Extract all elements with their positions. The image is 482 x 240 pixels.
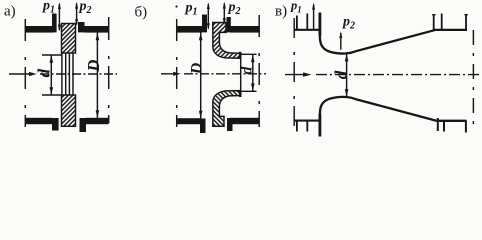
svg-text:p2: p2 [79, 0, 92, 16]
dimension D arrow [96, 32, 98, 118]
centerline [316, 74, 482, 76]
label D [84, 59, 103, 72]
dimension D arrow [200, 32, 202, 118]
right break line [108, 17, 110, 123]
dimension d arrow [50, 55, 52, 95]
right break line [258, 15, 260, 127]
label d [34, 69, 53, 78]
flange pair left [297, 14, 307, 132]
svg-text:б): б) [135, 5, 148, 21]
flow arrow [9, 73, 30, 75]
flange serif ticks [432, 14, 468, 16]
label p1 [42, 0, 55, 16]
flow arrow [161, 73, 174, 75]
right break line [472, 30, 474, 126]
label d [332, 70, 351, 79]
venturi inlet face [318, 13, 321, 137]
svg-text:p2: p2 [342, 15, 355, 32]
flange block top-right [78, 22, 85, 32]
pressure tap arrow p2 [223, 4, 225, 24]
nozzle upper body [213, 23, 240, 59]
pipe wall bottom-left bar [26, 118, 52, 124]
centerline [184, 73, 266, 75]
pipe wall top-right bar [231, 26, 260, 33]
pipe wall line bottom-left [294, 120, 319, 122]
pressure tap arrow p1 [207, 4, 209, 29]
pressure tap arrow p2 [76, 4, 78, 25]
svg-text:а): а) [4, 4, 16, 20]
svg-text:p1: p1 [42, 0, 55, 16]
flange block top-right [227, 17, 231, 32]
label p1 [185, 1, 198, 18]
venturi upper profile [320, 30, 467, 54]
label p1 [290, 0, 302, 14]
flange lines right top [434, 14, 466, 30]
label D [189, 62, 206, 75]
pipe wall bottom-right bar [230, 118, 259, 124]
flange block top-left [202, 15, 207, 33]
left break line [293, 18, 295, 128]
dimension d extension lines [42, 55, 62, 95]
orifice plate upper part [62, 24, 76, 54]
label d [238, 66, 255, 74]
flange block bottom-right [80, 118, 87, 132]
flange block bottom-left [200, 119, 206, 134]
svg-text:d: d [34, 69, 53, 78]
dimension d arrow [252, 54, 254, 91]
pipe wall top-right bar [85, 26, 109, 33]
left break line [24, 19, 26, 127]
label p2 [342, 15, 355, 32]
pipe wall top-left bar [26, 26, 53, 33]
pipe wall bottom-left bar [177, 118, 200, 124]
dimension d arrow [346, 54, 348, 97]
dot before p1 [175, 5, 177, 7]
orifice bore edge lines [62, 53, 73, 95]
label v) [275, 4, 287, 20]
svg-text:p1: p1 [185, 1, 198, 18]
svg-text:p2: p2 [228, 0, 241, 17]
label p2 [228, 0, 241, 17]
dimension d extension lines [240, 54, 257, 91]
svg-text:D: D [84, 59, 103, 72]
flow arrow [285, 74, 304, 76]
venturi lower profile [320, 97, 467, 121]
pressure tap arrow p1 [313, 5, 315, 30]
label a) [4, 4, 16, 20]
nozzle exit face line [240, 52, 242, 97]
label b) [135, 5, 148, 21]
nozzle exit lip upper [239, 52, 242, 59]
svg-text:в): в) [275, 4, 287, 20]
centerline [40, 73, 117, 75]
label p2 [79, 0, 92, 16]
pipe wall top-left bar [177, 26, 202, 33]
flange block bottom-left [52, 118, 59, 131]
pressure tap arrow p2 [340, 33, 342, 50]
pipe wall bottom-right bar [86, 118, 109, 124]
flange block top-left [52, 14, 57, 33]
orifice plate lower part [62, 95, 76, 126]
pressure tap arrow p1 [58, 4, 60, 30]
nozzle exit lip lower [239, 90, 242, 97]
left break line [176, 19, 178, 127]
flange block bottom-right [227, 118, 233, 131]
nozzle lower body [213, 91, 240, 127]
svg-text:p1: p1 [290, 0, 302, 14]
pipe wall line top-left [294, 29, 319, 31]
flange lines right bottom [438, 118, 466, 133]
